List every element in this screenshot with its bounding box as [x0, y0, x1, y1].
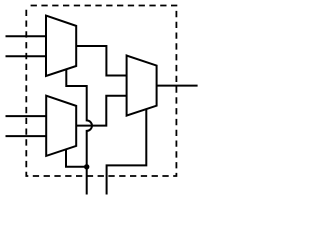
- wire M1 output to M3 input 0: [76, 46, 126, 76]
- wire select S1: M3 select down to bottom pin: [107, 109, 147, 194]
- wire select S0 net: M1 select down, over hop, to junction and bottom pin: [66, 69, 92, 194]
- junction dot on S0 net: [84, 164, 89, 169]
- mux M3 (output multiplexer): [127, 56, 157, 116]
- wire input B1 to M2: [6, 135, 47, 137]
- wire input B0 to M2: [6, 115, 47, 117]
- wire M2 output to M3 input 1: [76, 96, 126, 126]
- wire M3 output: [157, 85, 198, 87]
- mux M2 (bottom left multiplexer): [46, 96, 76, 156]
- mux M1 (top left multiplexer): [46, 16, 76, 76]
- wire input A1 to M1: [6, 55, 47, 57]
- wire input A0 to M1: [6, 35, 47, 37]
- wire select S0 branch to M2 select: [66, 149, 87, 167]
- dashed module boundary: [26, 6, 176, 177]
